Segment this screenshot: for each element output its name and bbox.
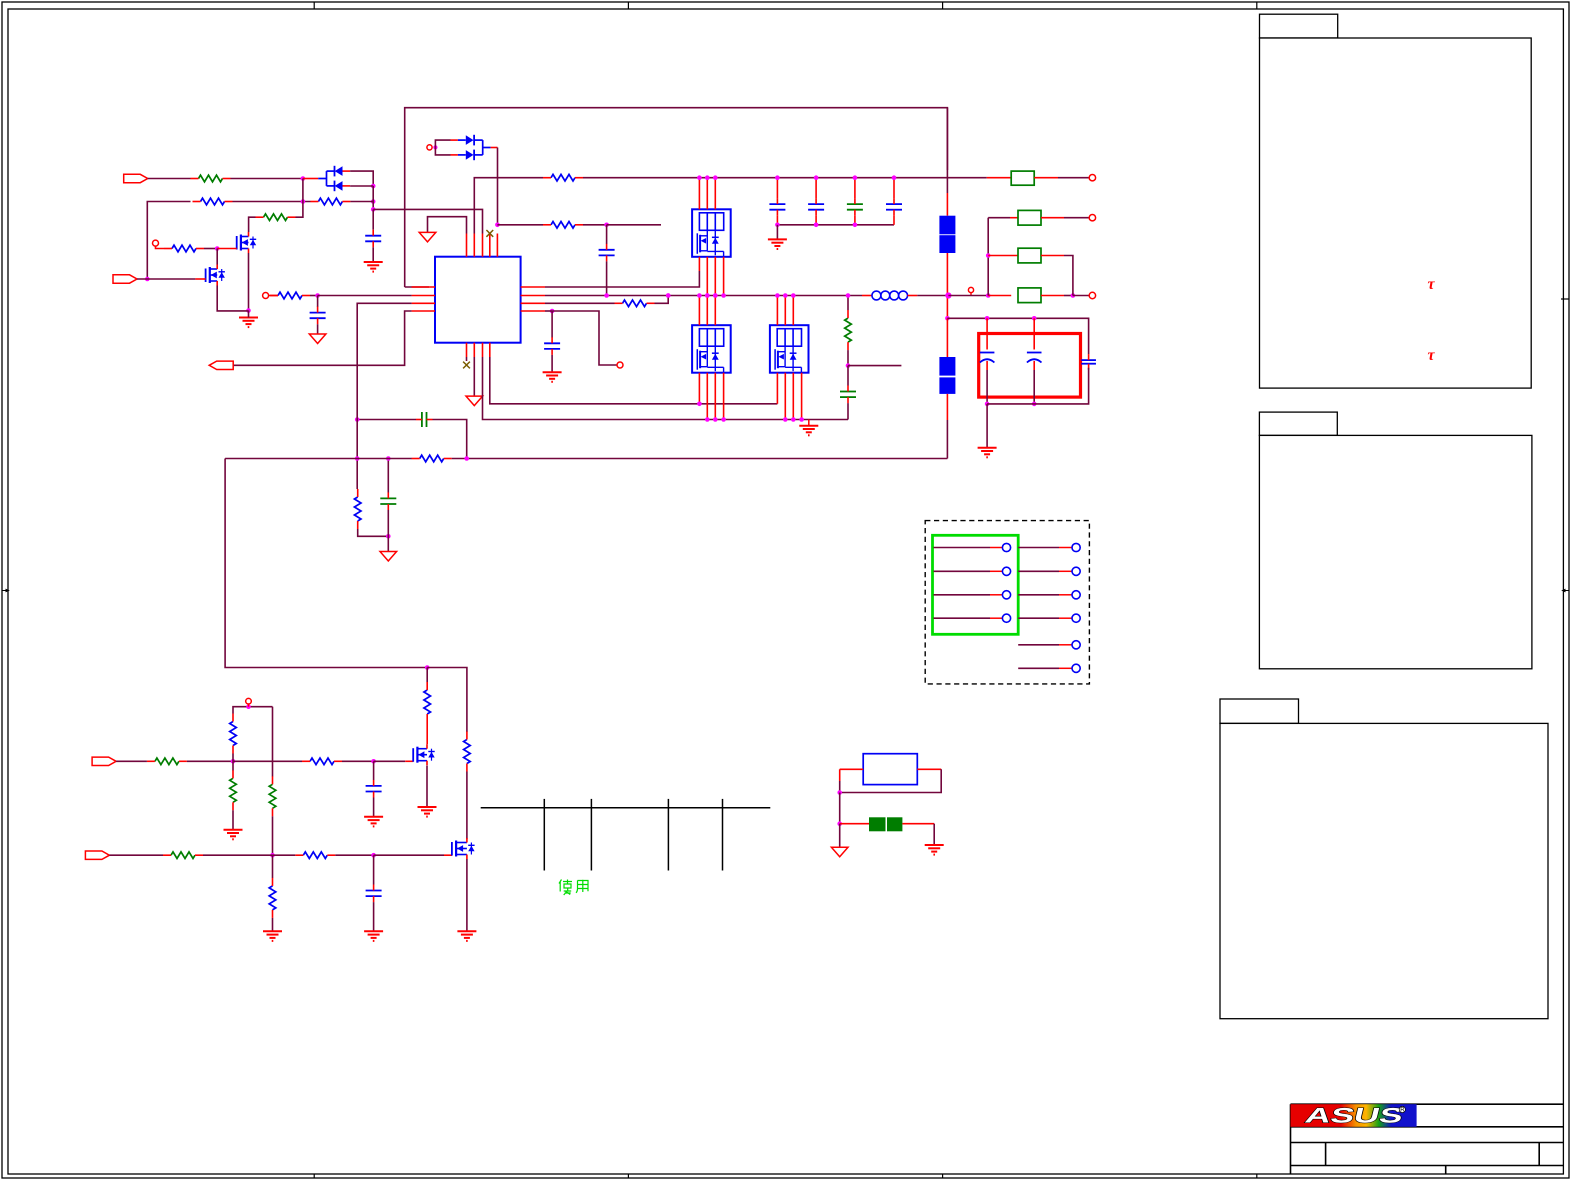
wire bpin2 to PGND3 (473, 357, 475, 396)
ground G13 (925, 845, 944, 855)
wire C7 down (987, 368, 1089, 404)
junction node N (371, 853, 376, 858)
cap bank stub top 2 (815, 178, 817, 198)
title block divider 3 (1445, 1166, 1447, 1175)
note text tau 1 (1428, 276, 1436, 293)
junction cap bank 2 (814, 175, 819, 180)
rail top maroon (946, 108, 948, 193)
wire F5 to ground (933, 824, 935, 845)
rail bottom corner (946, 420, 948, 459)
wire R22 to corner (358, 529, 389, 536)
junction D1 pin (433, 145, 437, 149)
IC U1 top pin 3 (482, 234, 484, 257)
wire bpin1 (466, 357, 468, 361)
junction F3 drop (1071, 293, 1076, 298)
ground G4 bus2 (799, 426, 818, 436)
resistor R4 (256, 214, 296, 221)
capacitor GC2 green (840, 386, 856, 404)
fuse F4 stub right (1041, 295, 1064, 297)
resistor R14 (302, 758, 342, 765)
border tick bottom 1 (313, 1174, 315, 1178)
connector pin circle L2 (1002, 567, 1010, 575)
wire R19 to Q3 (426, 722, 428, 744)
fuse F5 green blocks (869, 817, 902, 831)
resistor R12 green (230, 770, 237, 810)
title block divider 2 (1538, 1143, 1540, 1166)
IC U1 right pin 3 (521, 302, 545, 304)
capacitor C4 (544, 337, 560, 355)
junction U2 pin 1 (697, 175, 702, 180)
dual diode D3 (318, 166, 350, 191)
connector left wire 1 (934, 547, 1003, 549)
wire Q4 source gnd (466, 859, 468, 931)
wire R6 to node G (310, 295, 318, 297)
wire C5 right corner (433, 420, 467, 459)
polar cap PC2 bottom wire (1033, 370, 1035, 404)
connector right wire 1 (1018, 547, 1071, 549)
resistor R20 (464, 732, 471, 772)
wire GC2 to bus2 (847, 403, 849, 419)
junction R10 bottom (846, 363, 851, 368)
wire D3 bottom link (350, 185, 373, 187)
resistor R19 (424, 682, 431, 722)
wire x272 down (272, 707, 274, 777)
connector dashed box (925, 521, 1089, 684)
wire B1 node down (839, 793, 841, 824)
junction outcap2 top (1032, 316, 1037, 321)
ground G12 (457, 931, 476, 941)
polar cap PC2 (1027, 353, 1042, 371)
wire D3 top cathode to vertical (350, 171, 373, 186)
junction node J (231, 759, 236, 764)
note box N2 body (1259, 435, 1532, 668)
fuse F4 green box (1018, 288, 1041, 303)
wire C3 to PGND (317, 324, 319, 334)
junction node L (270, 853, 275, 858)
connector pin circle L4 (1002, 614, 1010, 622)
rail red segment 3 (946, 318, 948, 357)
stub F1 right (1034, 177, 1058, 179)
svg-text:ASUS: ASUS (1303, 1104, 1406, 1128)
connector pin circle L1 (1002, 543, 1010, 551)
nc pin gate net (153, 240, 159, 246)
IC U1 top pin 4 (489, 234, 491, 257)
IC U1 bottom pin 2 (473, 343, 475, 357)
junction comp right (464, 456, 469, 461)
component box B1 (863, 754, 917, 785)
border tick top 2 (627, 2, 629, 9)
wire R9 up to SW (655, 296, 669, 304)
wire IC pin3 left (357, 303, 411, 412)
wire P4 to R17 (109, 854, 163, 856)
junction U3 top pin 1 (697, 293, 702, 298)
wire P3 to R13 (116, 760, 147, 762)
IC U1 bottom pin 4 (489, 343, 491, 357)
nc circle node H (617, 362, 623, 368)
wire node L down (272, 855, 274, 878)
wire C2 down to bus (606, 261, 608, 295)
wire node N to Q4 gate (374, 854, 444, 856)
ground G4 stem (808, 420, 810, 426)
border tick bottom 4 (1256, 1174, 1258, 1178)
junction C5 left (355, 417, 360, 422)
wire R7 to F node (583, 224, 607, 226)
wire R10 to GC2 (847, 366, 849, 386)
connector right wire 2 (1018, 570, 1071, 572)
junction bus2 U3 4 (721, 417, 726, 422)
wire comp bus (225, 458, 412, 460)
junction cap bank 4 (892, 175, 897, 180)
junction U3 top pin 2 (705, 293, 710, 298)
junction SW R9 (666, 293, 671, 298)
connector pin circle R6 (1072, 664, 1080, 672)
title block divider 1 (1325, 1143, 1327, 1166)
wire node C to IC pin (373, 209, 482, 233)
ground G2 (239, 318, 258, 328)
junction PC2 bottom (1032, 402, 1037, 407)
junction bus2 U4 4 (799, 417, 804, 422)
connector pin circle R5 (1072, 641, 1080, 649)
U4 bottom pin 2 (784, 373, 786, 420)
note text tau 2 (1428, 347, 1436, 364)
cap bank stub bottom 4 (893, 216, 895, 225)
connector right wire 3 (1018, 594, 1071, 596)
resistor R11 (230, 714, 237, 754)
svg-text:τ: τ (1428, 276, 1436, 293)
inductor L1 (872, 291, 908, 300)
note box N1 body (1260, 38, 1532, 388)
wire R16 to ground (272, 918, 274, 931)
resistor R1 (191, 175, 231, 182)
wire node L to R18 (273, 854, 296, 856)
U2 bottom pin 1 (698, 257, 700, 271)
wire C8 to ground (373, 798, 375, 817)
wire C4 to ground (551, 355, 553, 372)
wire pin r4 ext (545, 310, 552, 312)
power ground PG4 (380, 552, 397, 562)
nc circle K (246, 698, 252, 704)
junction SW U2 pin 3 (713, 293, 718, 298)
U3 bottom pin 4 (723, 373, 725, 420)
dual FET block U3 (692, 325, 731, 373)
resistor R5 (164, 245, 204, 252)
ground G5 (768, 239, 787, 249)
power ground PG5 (831, 847, 848, 857)
resistor R22 (354, 489, 361, 529)
polar cap PC2 stub (1033, 318, 1035, 349)
U3 top pin 1 (698, 296, 700, 326)
connector green box (933, 535, 1019, 634)
junction bus2 U3 2 (705, 417, 710, 422)
wire node G down (317, 296, 319, 308)
junction bus2 U3 3 (713, 417, 718, 422)
bus tap 4 (722, 799, 724, 871)
junction port2 node (145, 277, 150, 282)
junction node C (371, 207, 376, 212)
fuse F3 stub right (1041, 255, 1064, 257)
wire R1 to node A (231, 178, 303, 180)
cap bank stub top 4 (893, 178, 895, 198)
U2 bottom pin 2 (706, 257, 708, 296)
polar cap PC1 stub (986, 318, 988, 349)
fuse F1 green box (1011, 171, 1034, 185)
wire node D to Q1 gate (217, 248, 237, 250)
border tick top 1 (313, 2, 315, 9)
wire F2 to out2 (1064, 217, 1089, 219)
capacitor CB4 (886, 198, 902, 216)
junction node F (604, 223, 609, 228)
IC U1 left pin 1 (412, 286, 435, 288)
nc pin D1 (427, 145, 432, 150)
svg-text:τ: τ (1428, 347, 1436, 364)
power ground PG3 (466, 396, 483, 406)
wire R17 to node L (203, 854, 273, 856)
wire node G to IC (318, 295, 412, 297)
junction cap bank bus left (775, 223, 780, 228)
resistor R8 (543, 174, 583, 181)
fuse F2 stub left (1010, 217, 1018, 219)
bus tap 2 (590, 799, 592, 871)
U4 bottom pin 1 (776, 373, 778, 404)
junction cap bank 1 (775, 175, 780, 180)
dual FET block U2 (692, 209, 731, 256)
resistor R3 (310, 198, 350, 205)
wire node D down to Q2 drain (216, 249, 218, 265)
junction Q1 source node (246, 308, 251, 313)
U3 top pin 3 (714, 296, 716, 326)
junction rail SW (945, 292, 951, 298)
capacitor C3 (310, 307, 326, 325)
wire F down to C2 (606, 225, 608, 244)
junction U3 top pin 3 (713, 293, 718, 298)
input port P1 (124, 174, 148, 182)
bus tap 1 (543, 799, 545, 871)
junction nc node (246, 704, 251, 709)
wire R10 node (847, 350, 849, 366)
inductor L1 stub right (908, 295, 918, 297)
wire E to R7 (497, 224, 543, 226)
wire R3 to vertical (350, 201, 373, 203)
resistor R18 (295, 852, 335, 859)
capacitor C5 green (416, 412, 433, 427)
title block outline (1291, 1104, 1564, 1174)
connector pin circle R1 (1072, 543, 1080, 551)
junction bus2 U4 2 (783, 417, 788, 422)
border tick right (1561, 298, 1569, 300)
wire F3 corner (1064, 256, 1073, 296)
wire R2 to node B (233, 201, 311, 203)
ground G1 (364, 262, 383, 272)
connector pin circle R3 (1072, 591, 1080, 599)
wire Q2 source to node (217, 286, 248, 311)
capacitor C2 (599, 244, 615, 262)
output filter red box (979, 334, 1081, 398)
fuse F4 stub left (988, 295, 1011, 297)
wire bpin3 to bus2 (483, 357, 849, 420)
U4 bottom pin 4 (801, 373, 803, 420)
no-connect X2 (463, 362, 470, 369)
junction gate node D (215, 246, 220, 251)
ground G11 (364, 931, 383, 941)
output port P5 (209, 361, 233, 369)
wire F4 to out3 (1064, 295, 1073, 297)
junction SW U2 pin 4 (721, 293, 726, 298)
wire IC pin4 left (234, 311, 412, 365)
junction cap bank bus 854.9 (853, 223, 858, 228)
wire comp mid (387, 459, 389, 493)
fuse F2 green box (1018, 210, 1041, 225)
ground G10 (418, 807, 437, 817)
polar cap PC1 bottom wire (986, 370, 988, 404)
wire node J to R14 (233, 760, 302, 762)
Q3 gate stub (405, 760, 413, 762)
transistor Q4 (452, 838, 475, 859)
transistor Q3 (413, 744, 435, 765)
bus bar horizontal (481, 807, 771, 809)
ground G3 (543, 372, 562, 382)
junction outcap1 top (985, 316, 990, 321)
wire PGND1 link (428, 217, 467, 234)
wire pin r1 to FET1 (545, 271, 699, 287)
wire SW to R10 (847, 296, 849, 311)
junction cap bank 3 (853, 175, 858, 180)
resistor R17 green (163, 852, 203, 859)
capacitor C7 (1081, 354, 1096, 370)
connector right wire 4 (1018, 617, 1071, 619)
wire drop to x466 (427, 668, 467, 733)
inductor L1 stub left (862, 295, 872, 297)
resistor R2 (193, 198, 233, 205)
svg-text:R: R (1400, 1108, 1405, 1114)
green text label (559, 880, 588, 896)
bus tap 3 (667, 799, 669, 871)
wire D1 to corner down (497, 148, 499, 225)
U3 top pin 2 (706, 296, 708, 326)
U2 top pin 3 (714, 178, 716, 210)
junction comp mid top (386, 456, 391, 461)
junction node E (495, 223, 500, 228)
wire bpin4 to bus1 (490, 357, 778, 404)
capacitor CB3 (847, 198, 863, 216)
wire node C down to C1 (372, 209, 374, 229)
note box N3 body (1220, 723, 1548, 1018)
wire SW bus (545, 295, 862, 297)
junction R3 right (371, 199, 376, 204)
stub SW circle (269, 295, 278, 297)
note box N2 tab (1259, 412, 1337, 435)
fuse F3 green box (1018, 248, 1041, 263)
input port P4 (85, 851, 109, 859)
junction U3 b1 (697, 402, 702, 407)
wire Q3 source gnd (426, 766, 428, 808)
junction out vert (986, 293, 991, 298)
wire corner x147 (147, 202, 190, 280)
wire R12 to ground (232, 810, 234, 829)
resistor R6 (270, 292, 310, 299)
IC U1 top pin 2 (473, 234, 475, 257)
connector right wire 6 (1018, 667, 1071, 669)
wire node J up (232, 754, 234, 762)
fuse F2 stub right (1041, 217, 1064, 219)
border arrow left (2, 589, 10, 593)
wire VIN net corner (474, 178, 543, 234)
cap bank stub bottom 3 (854, 216, 856, 225)
wire main loop top (405, 108, 948, 287)
resistor R9 (615, 300, 655, 307)
wire Q1 source node to ground (248, 311, 250, 318)
U2 bottom pin 4 (723, 257, 725, 296)
junction node B (301, 199, 306, 204)
Q4 gate stub (444, 854, 452, 856)
nc stub K (248, 704, 250, 707)
junction rail out2 (945, 316, 950, 321)
note box N3 tab (1220, 699, 1299, 723)
U4 top pin 1 (776, 296, 778, 326)
wire outcap gnd (986, 404, 988, 448)
resistor R15 green (269, 776, 276, 816)
wire drop node down (426, 668, 428, 683)
nc circle SW left (263, 293, 269, 299)
junction U2 pin 3 (713, 175, 718, 180)
cap bank stub top 3 (854, 178, 856, 198)
output circle O1 (1089, 175, 1095, 181)
testpoint TP1 stub (970, 293, 972, 296)
wire cap bank gnd (776, 225, 778, 240)
U3 bottom pin 1 (698, 373, 700, 404)
IC U1 right pin 1 (521, 286, 545, 288)
IC U1 top pin 1 (466, 234, 468, 257)
wire node J down (232, 761, 234, 770)
rail red segment 4 (946, 394, 948, 420)
stub to F1 (987, 177, 1011, 179)
input port P3 (92, 757, 116, 765)
wire R4 to Q1 drain (249, 217, 256, 232)
wire R11 top corner (233, 707, 273, 714)
polar cap PC1 (980, 353, 995, 371)
connector left wire 2 (934, 570, 1003, 572)
wire F right end (607, 224, 661, 226)
wire node H right (552, 311, 617, 365)
capacitor C8 (366, 780, 382, 798)
connector pin circle R2 (1072, 567, 1080, 575)
junction PC1 bottom (985, 402, 990, 407)
U4 top pin 2 (784, 296, 786, 326)
wire left drop (225, 459, 427, 668)
wire cap bank bus bottom (777, 224, 894, 226)
U4 top pin 3 (792, 296, 794, 326)
wire F1 to out1 (1058, 177, 1089, 179)
junction drop node (425, 665, 430, 670)
U3 bottom pin 3 (714, 373, 716, 420)
IC U1 left pin 3 (412, 302, 435, 304)
junction D3 bottom (371, 184, 376, 189)
note box N1 tab (1260, 14, 1338, 38)
output circle O2 (1089, 215, 1095, 221)
junction comp top (355, 456, 360, 461)
junction pin r4 node (550, 309, 555, 314)
wire row2 (988, 217, 1010, 219)
wire row2 corner (987, 218, 989, 296)
power ground PG1 (419, 232, 436, 242)
fuse F3 stub left (988, 255, 1018, 257)
B1 right pin (917, 768, 941, 770)
wire R13 to node J (187, 760, 233, 762)
junction SW R10 (846, 293, 851, 298)
wire R18 to node N (335, 854, 373, 856)
junction cap bank bus 816.1 (814, 223, 819, 228)
wire P2 to Q2 gate (137, 278, 195, 280)
cap bank stub top 1 (776, 178, 778, 198)
